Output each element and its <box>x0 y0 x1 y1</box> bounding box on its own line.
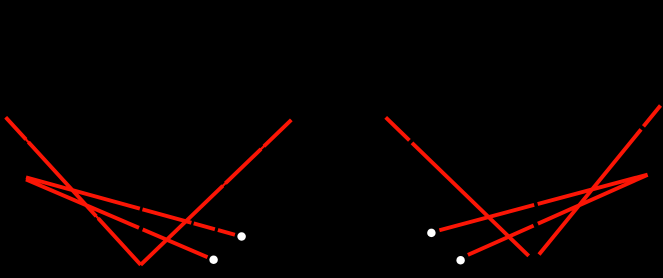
wire right upper secant <box>439 175 647 231</box>
wire left V descending branch (dashed overlay) <box>6 117 141 264</box>
node C <box>427 229 436 238</box>
node A <box>237 232 246 241</box>
wire right lower secant <box>468 175 648 255</box>
wire right V descending branch (dashed) <box>386 117 529 256</box>
wire right V ascending branch (dashed) <box>539 106 661 255</box>
node D <box>456 256 465 265</box>
wire left V ascending branch (dashed overlay) <box>141 120 292 265</box>
wire left V ascending branch (solid underlay) <box>141 120 292 265</box>
node B <box>209 256 218 265</box>
wire left upper secant <box>26 177 235 234</box>
wire left lower secant <box>26 179 208 257</box>
wire left V descending branch (solid underlay) <box>6 117 141 264</box>
